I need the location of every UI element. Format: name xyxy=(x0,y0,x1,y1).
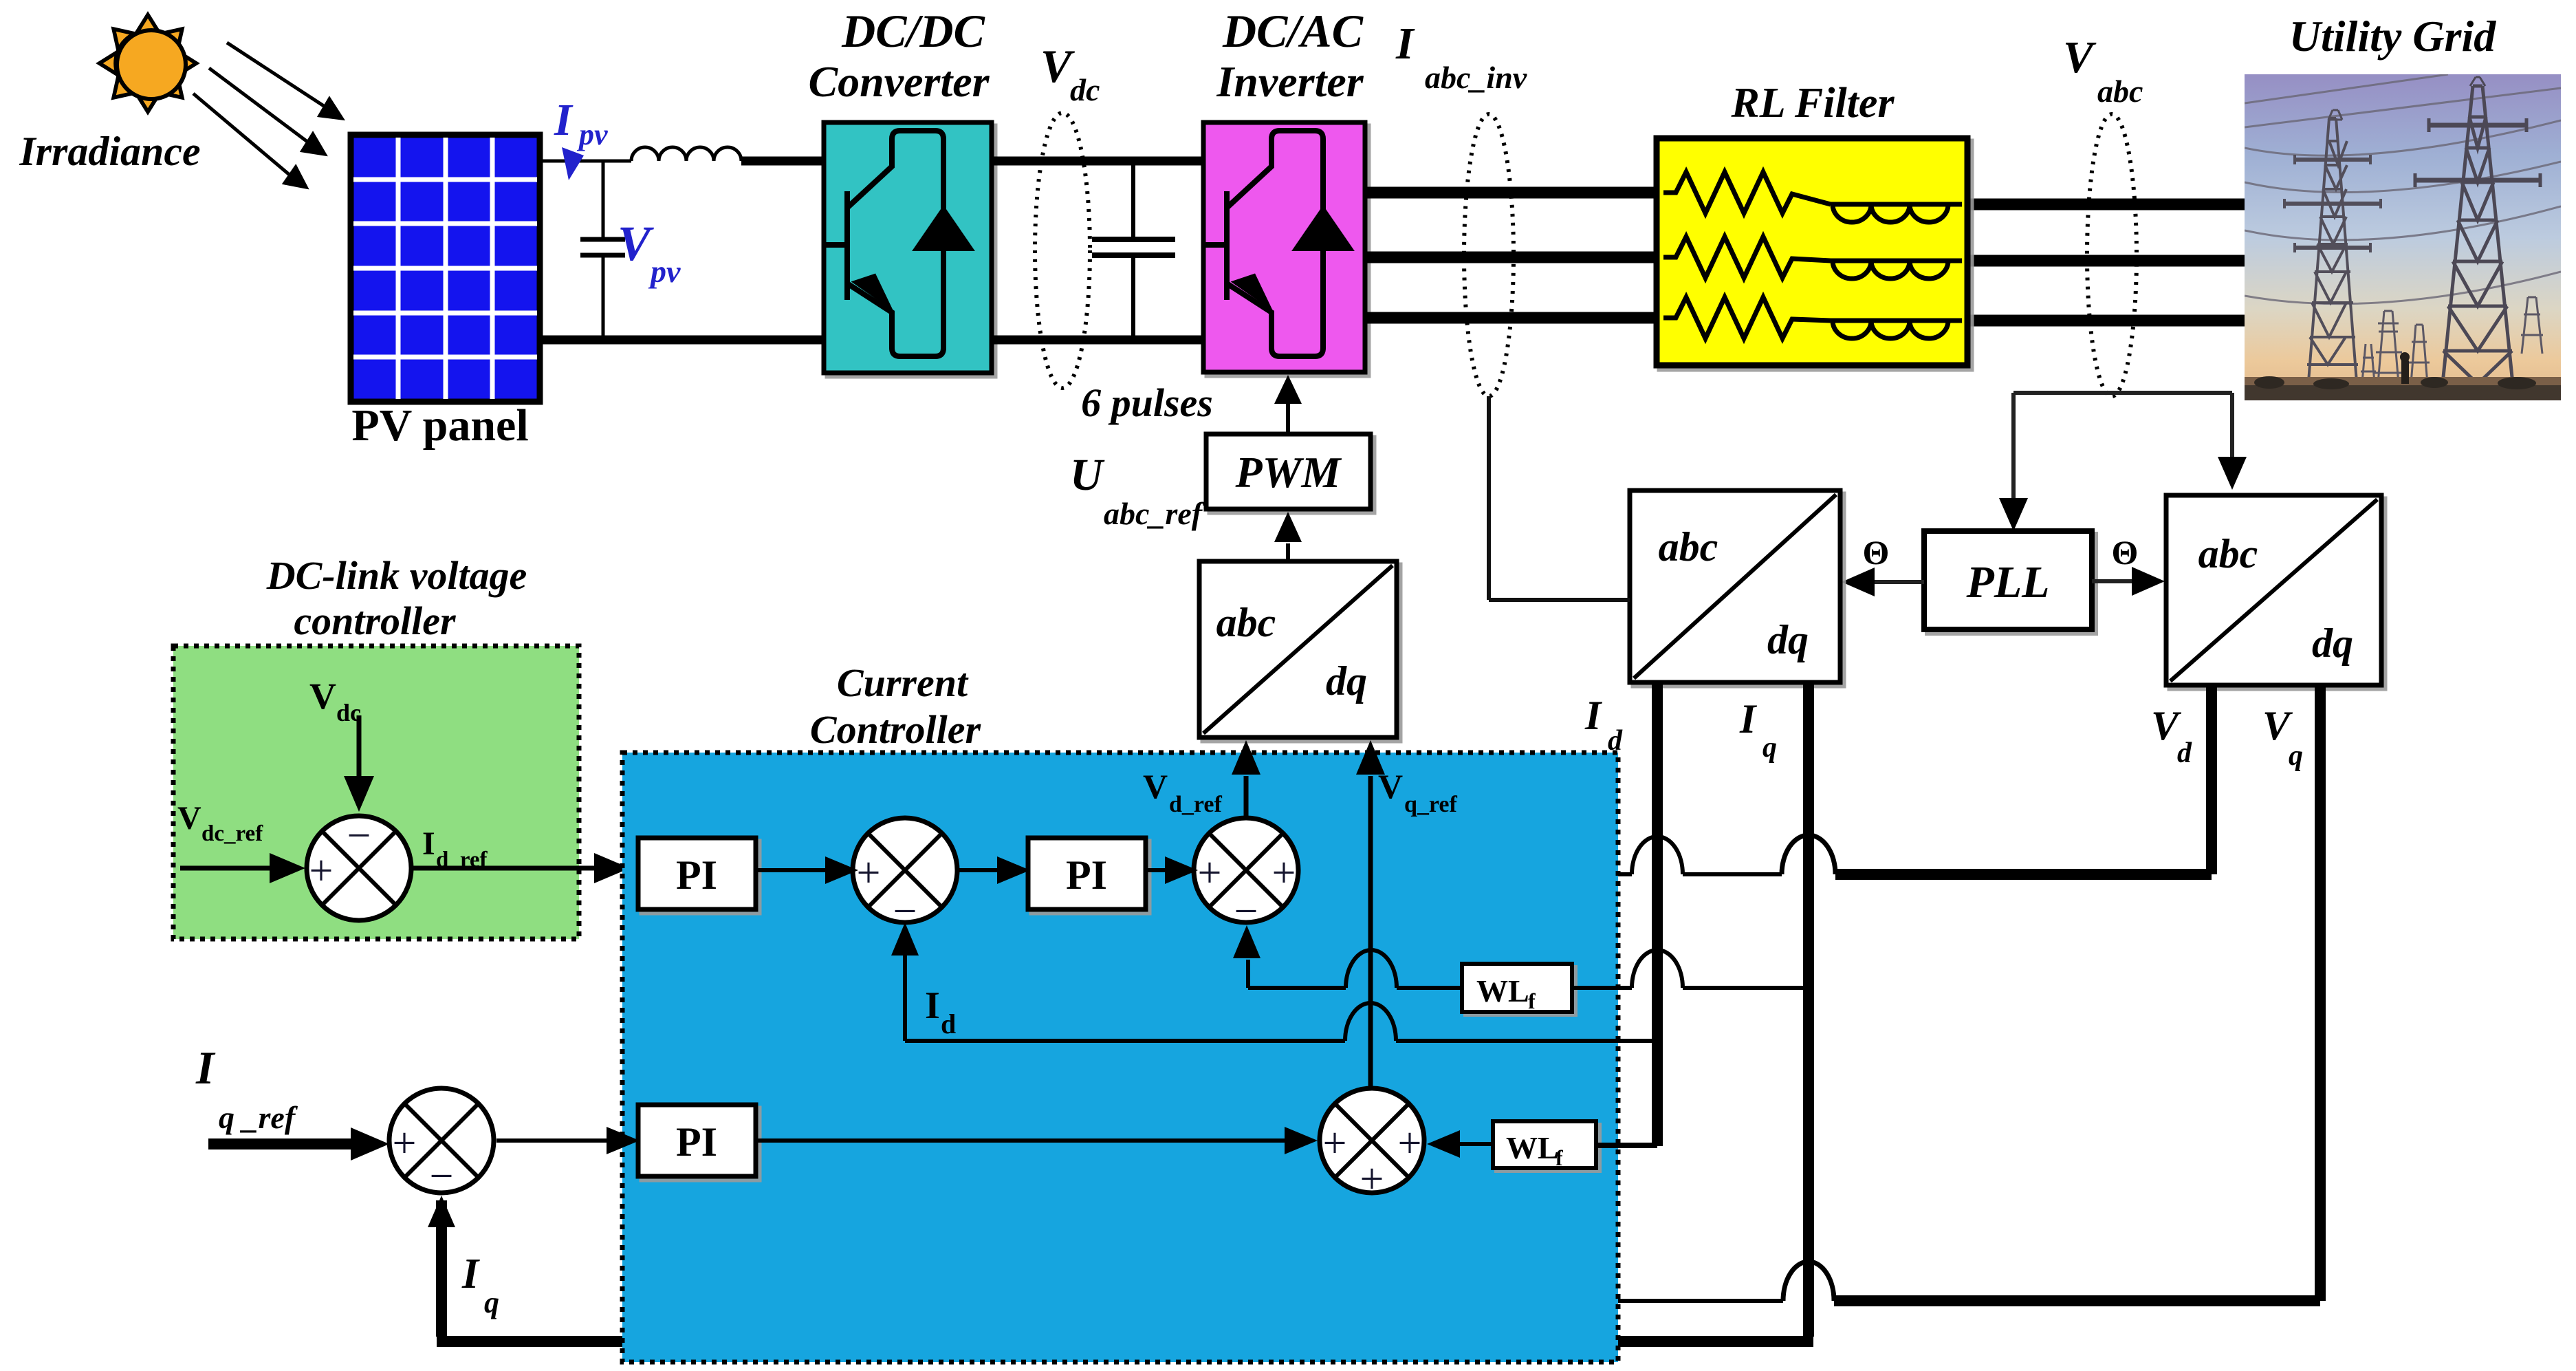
svg-text:Θ: Θ xyxy=(2112,533,2139,572)
svg-text:dc_ref: dc_ref xyxy=(201,821,263,846)
svg-text:q _ref: q _ref xyxy=(219,1100,298,1135)
svg-text:+: + xyxy=(1398,1120,1422,1167)
svg-text:PV panel: PV panel xyxy=(351,400,528,451)
svg-text:f: f xyxy=(1528,989,1536,1013)
svg-text:+: + xyxy=(1360,1156,1384,1202)
svg-text:V: V xyxy=(177,800,201,836)
svg-text:6 pulses: 6 pulses xyxy=(1081,380,1213,425)
svg-text:Converter: Converter xyxy=(808,57,990,106)
svg-text:+: + xyxy=(393,1120,417,1167)
svg-text:I: I xyxy=(1395,19,1415,69)
svg-text:PI: PI xyxy=(1066,852,1107,898)
svg-text:I: I xyxy=(1584,693,1603,738)
svg-text:Irradiance: Irradiance xyxy=(19,129,200,174)
svg-text:I: I xyxy=(925,984,940,1027)
svg-text:+: + xyxy=(309,848,334,894)
svg-text:q: q xyxy=(2289,740,2303,772)
svg-text:+: + xyxy=(1272,850,1296,896)
svg-text:I: I xyxy=(195,1041,216,1094)
svg-text:DC/DC: DC/DC xyxy=(841,5,985,57)
svg-text:q_ref: q_ref xyxy=(1404,792,1457,817)
svg-text:WL: WL xyxy=(1506,1130,1559,1165)
svg-text:PI: PI xyxy=(676,852,717,898)
svg-text:Controller: Controller xyxy=(810,707,981,752)
svg-text:d_ref: d_ref xyxy=(1169,792,1222,817)
svg-text:Inverter: Inverter xyxy=(1216,57,1364,106)
svg-text:I: I xyxy=(422,825,435,862)
svg-text:DC-link voltage: DC-link voltage xyxy=(266,553,527,598)
svg-text:dq: dq xyxy=(1767,617,1809,662)
svg-text:q: q xyxy=(1762,732,1777,764)
svg-text:V: V xyxy=(2063,32,2097,83)
svg-text:q: q xyxy=(484,1286,499,1319)
svg-text:−: − xyxy=(430,1153,454,1200)
svg-text:−: − xyxy=(347,812,371,859)
svg-text:pv: pv xyxy=(648,254,681,289)
svg-text:Θ: Θ xyxy=(1863,533,1890,572)
svg-text:Current: Current xyxy=(837,660,969,705)
svg-text:I: I xyxy=(1739,696,1758,742)
svg-text:dq: dq xyxy=(2312,620,2353,666)
svg-text:V: V xyxy=(1378,767,1403,806)
svg-text:d: d xyxy=(2177,737,2192,769)
svg-text:abc: abc xyxy=(2097,74,2143,109)
svg-text:V: V xyxy=(309,676,336,717)
svg-text:controller: controller xyxy=(294,598,456,643)
svg-text:dq: dq xyxy=(1326,658,1367,704)
svg-text:V: V xyxy=(618,216,654,271)
svg-text:abc: abc xyxy=(1659,524,1718,570)
svg-text:I: I xyxy=(461,1251,480,1297)
svg-text:abc_ref: abc_ref xyxy=(1104,496,1205,531)
svg-text:d: d xyxy=(941,1008,956,1039)
svg-text:V: V xyxy=(1143,767,1168,806)
svg-text:PLL: PLL xyxy=(1966,557,2050,607)
svg-text:+: + xyxy=(1323,1120,1347,1167)
svg-text:+: + xyxy=(857,850,881,896)
svg-text:Utility Grid: Utility Grid xyxy=(2289,12,2496,61)
svg-text:WL: WL xyxy=(1476,973,1529,1008)
svg-text:f: f xyxy=(1556,1145,1563,1170)
svg-text:+: + xyxy=(1198,850,1222,896)
svg-text:abc: abc xyxy=(1216,600,1276,645)
svg-text:U: U xyxy=(1070,450,1105,500)
svg-text:PWM: PWM xyxy=(1235,448,1342,497)
svg-text:PI: PI xyxy=(676,1119,717,1165)
svg-text:abc_inv: abc_inv xyxy=(1425,60,1527,95)
svg-text:pv: pv xyxy=(576,118,608,151)
svg-text:dc: dc xyxy=(1070,72,1100,107)
svg-text:RL Filter: RL Filter xyxy=(1730,80,1895,127)
svg-text:DC/AC: DC/AC xyxy=(1222,5,1364,57)
svg-text:abc: abc xyxy=(2198,531,2258,576)
svg-text:I: I xyxy=(554,95,574,145)
